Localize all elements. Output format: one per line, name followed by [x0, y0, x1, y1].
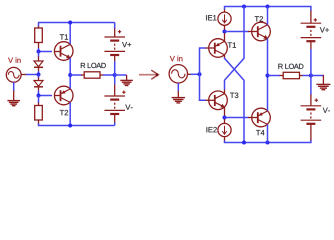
label T2 right [255, 16, 263, 21]
wire battery midpoint to ground right [311, 75, 324, 77]
wire input node up to T1 base [200, 48, 207, 74]
wire midpoint to battery V- left [114, 75, 116, 85]
ground V in right [172, 98, 185, 103]
wire resistor R1 to node [38, 48, 40, 52]
label T3 [230, 93, 238, 98]
junction dot bottom rail left [68, 124, 72, 128]
node B dot (T3 emitter / IE2 / T4 base) [223, 116, 227, 120]
wire node to resistor R2 [38, 96, 40, 104]
junction dot top rail at T2 collector [266, 5, 270, 9]
ground V in left stem [13, 91, 15, 101]
source V in right sine [172, 70, 185, 78]
current source IE2 bottom lead [224, 137, 226, 141]
wire T3 emitter to node B [224, 107, 226, 117]
diode D1 cathode bar [34, 66, 43, 68]
wire T1 base [39, 51, 53, 53]
resistor R2 top lead [38, 103, 40, 106]
wire mid node to diode D2 [38, 75, 40, 79]
battery V+ right bottom lead [310, 41, 312, 49]
junction dot top rail at cross wire [242, 5, 246, 9]
battery V- right [301, 106, 322, 124]
transistor T3 base lead [206, 99, 210, 101]
current source IE1 bottom lead [224, 25, 226, 30]
wire T4 emitter to output node [267, 76, 269, 111]
wire R LOAD to battery midpoint right [303, 75, 311, 77]
node dot battery midpoint right [309, 74, 313, 78]
diode D1 lead [38, 57, 40, 62]
battery V+ left [104, 37, 125, 55]
wire D2 to T2 base node [38, 91, 40, 96]
wire T1 emitter to output node [69, 58, 71, 75]
resistor R1 bottom lead [38, 43, 40, 49]
junction dot bottom rail at cross wire [242, 141, 246, 145]
diode D1 [34, 61, 43, 67]
ground mid left stem [126, 75, 128, 80]
node dot output left [68, 73, 72, 77]
source V in left sine [8, 72, 19, 79]
arrow shaft [139, 74, 155, 76]
wire T4 collector to bottom rail [267, 124, 269, 142]
wire node A to T2 base [225, 31, 249, 33]
wire T3 collector stub [224, 89, 226, 94]
wire top rail to battery V+ left [114, 23, 116, 30]
wire V in left to ground [13, 82, 15, 91]
wire midpoint to battery V- right [310, 76, 312, 95]
current source IE2 arrow [224, 126, 226, 134]
resistor R1 top lead [38, 26, 40, 29]
node dot D2 cathode / T2 base [37, 94, 41, 98]
label V- right [323, 108, 330, 113]
battery V- right top lead [310, 94, 312, 106]
source V in left output lead [21, 74, 26, 76]
wire T1 collector stub [224, 55, 226, 58]
battery V+ right [301, 23, 322, 41]
battery V- right plus sign [315, 99, 318, 102]
wire R LOAD to battery midpoint [103, 74, 115, 76]
diode D2 [34, 81, 43, 87]
label T1 right [228, 42, 236, 47]
current source IE2 top lead [224, 119, 226, 124]
source V in right [169, 65, 187, 83]
wire input node down to T3 base [200, 74, 207, 100]
transistor T1 right (PNP) [209, 39, 228, 58]
label IE1 [206, 15, 216, 20]
label V- left [125, 105, 132, 110]
label R LOAD right [278, 64, 303, 69]
label V in right [170, 56, 183, 62]
battery V- left plus sign [122, 91, 125, 94]
resistor R LOAD left [84, 72, 100, 78]
transistor T2 right base lead [248, 31, 252, 33]
label T1 left [60, 34, 68, 39]
wire T2 emitter from output node [69, 75, 71, 89]
label V in left [8, 57, 21, 63]
node A dot (IE1 / T1 emitter / T2 base) [223, 30, 227, 34]
node dot output right [266, 74, 270, 78]
wire T1 collector [69, 23, 71, 45]
wire V in right to node [191, 73, 200, 75]
wire V in to mid node [26, 74, 39, 76]
label IE2 [207, 127, 217, 132]
wire T1 emitter to node A [224, 33, 226, 41]
diode D2 bottom lead [38, 87, 40, 91]
battery V+ left top lead [114, 29, 116, 38]
arrow tip [155, 73, 158, 76]
wire node B to T4 base [225, 117, 249, 119]
battery V+ right plus sign [314, 18, 317, 21]
transistor T3 (NPN) [209, 91, 228, 110]
current source IE1 arrow [224, 14, 226, 22]
ground mid right stem [322, 75, 324, 84]
ground V in right stem [177, 91, 179, 97]
wire battery V+ to midpoint right [310, 49, 312, 76]
battery V+ right top lead [310, 11, 312, 24]
battery V- left bottom lead [114, 114, 116, 123]
wire T2 collector to top rail [267, 7, 269, 25]
ground mid left [120, 80, 133, 85]
resistor R LOAD right right lead [300, 75, 304, 77]
wire bottom rail right circuit [225, 140, 311, 143]
ground mid right [316, 84, 330, 89]
transistor T1 right base lead [206, 47, 210, 49]
resistor R1 [35, 28, 43, 43]
current source IE2 [218, 123, 231, 136]
node dot input left [37, 73, 41, 77]
label R LOAD left [81, 63, 106, 68]
wire battery midpoint to ground left [115, 74, 127, 76]
transistor T2 right (NPN) [252, 22, 271, 41]
resistor R LOAD right lead [100, 74, 104, 76]
transistor T4 (PNP) [252, 108, 271, 127]
label V+ right [320, 27, 329, 32]
cross wire from top rail to T3 collector [225, 7, 245, 90]
transistor T2 left (PNP) [54, 86, 73, 105]
battery V+ left bottom lead [114, 55, 116, 62]
diode D2 cathode bar [34, 86, 43, 88]
node dot battery midpoint left [113, 73, 117, 77]
transistor T4 base lead [248, 117, 252, 119]
current source IE1 top lead [224, 10, 226, 13]
arrow head [151, 70, 158, 79]
diode D2 top lead [38, 78, 40, 81]
label V+ left [122, 42, 131, 47]
junction dot bottom rail at T4 collector [266, 141, 270, 145]
wire T2 emitter to output node [267, 38, 269, 75]
resistor R2 [35, 106, 43, 121]
wire left branch top corner [38, 23, 40, 27]
node dot V in right [198, 72, 202, 76]
wire T2 base [39, 95, 53, 97]
battery V- left top lead [114, 85, 116, 97]
resistor R LOAD right [283, 72, 299, 78]
wire top rail right circuit [225, 7, 311, 12]
battery V- right bottom lead [310, 124, 312, 141]
resistor R LOAD left lead [81, 74, 84, 76]
wire node to diode D1 [38, 52, 40, 58]
diode D1 bottom lead [38, 67, 40, 71]
wire T2 collector to bottom rail [69, 102, 71, 125]
source V in left [6, 67, 21, 82]
resistor R2 bottom lead [38, 120, 40, 125]
label T4 [256, 130, 264, 135]
resistor R LOAD right left lead [280, 75, 284, 77]
wire bottom rail left circuit [39, 124, 115, 126]
junction dot top rail left [68, 21, 72, 25]
wire output node to R LOAD right [268, 75, 281, 77]
source V in right output lead [188, 73, 192, 75]
battery V- left [104, 96, 125, 114]
node dot D1 anode / T1 base [37, 50, 41, 54]
cross wire from T1 collector to bottom [225, 58, 245, 143]
wire top rail left circuit [38, 22, 115, 24]
wire D1 to mid node [38, 71, 40, 75]
current source IE1 [218, 12, 231, 25]
wire output node to R LOAD [70, 74, 81, 76]
ground V in left [7, 101, 20, 106]
transistor T1 left (NPN) [54, 42, 73, 61]
battery V+ left plus sign [118, 30, 121, 33]
wire battery V- to bottom rail [114, 123, 116, 126]
wire battery V+ to midpoint [114, 61, 116, 75]
label T2 left [60, 110, 68, 115]
wire V in right to ground [177, 83, 179, 92]
